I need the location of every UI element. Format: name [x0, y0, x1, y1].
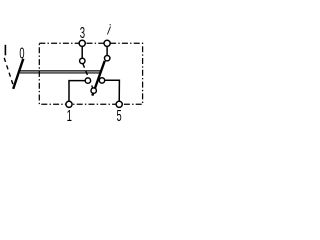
wire: terminal 7 to contact c2 — [106, 43, 108, 56]
contact c3 — [85, 78, 90, 83]
terminal 5 — [116, 101, 122, 107]
movable contact bar (solid position) — [92, 61, 104, 96]
switch housing (dash-dot box) — [39, 43, 142, 104]
terminal 7 — [104, 40, 110, 46]
label I (lever position) — [5, 45, 7, 56]
svg-text:1: 1 — [67, 106, 72, 124]
pivot contact — [91, 88, 96, 93]
lever (solid, position 0) — [13, 59, 23, 89]
wire: terminal 3 to contact c1 — [81, 43, 83, 58]
svg-text:5: 5 — [117, 106, 122, 124]
svg-text:0: 0 — [19, 44, 24, 62]
wire: double mechanical link line (upper) — [19, 70, 101, 72]
wire: terminal 1 up and right to contact c3 — [69, 81, 86, 105]
svg-text:3: 3 — [80, 23, 85, 41]
contact c4 — [99, 78, 104, 83]
contact c2 — [105, 56, 110, 61]
terminal 1 — [66, 101, 72, 107]
lever (dashed, position I) — [4, 58, 14, 87]
terminal 3 — [79, 40, 85, 46]
movable contact (dashed alternate position) — [83, 64, 93, 88]
wire: double mechanical link line (lower) — [20, 72, 101, 74]
contact c1 — [80, 58, 85, 63]
wire: terminal 5 up and left to contact c4 — [105, 80, 120, 104]
label 7 — [107, 25, 111, 35]
